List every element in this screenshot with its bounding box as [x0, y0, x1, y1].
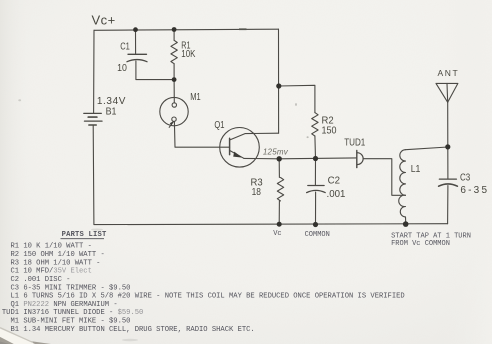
svg-text:L1: L1 [411, 163, 421, 174]
svg-text:PARTS LIST: PARTS LIST [62, 231, 107, 239]
svg-text:C2 .001 DISC -: C2 .001 DISC - [2, 276, 71, 284]
svg-text:B1: B1 [106, 106, 117, 118]
svg-text:R1 10 K 1/10 WATT -: R1 10 K 1/10 WATT - [2, 243, 92, 251]
svg-text:M1: M1 [190, 91, 200, 102]
svg-text:ANT: ANT [438, 68, 460, 78]
svg-text:10: 10 [117, 61, 127, 73]
svg-text:TUD1 IN3716 TUNNEL DIODE - $59: TUD1 IN3716 TUNNEL DIODE - $59.50 [2, 309, 143, 317]
svg-text:10K: 10K [181, 48, 195, 59]
svg-text:C1: C1 [120, 41, 130, 52]
svg-text:Vc+: Vc+ [92, 13, 116, 28]
svg-text:.001: .001 [327, 189, 346, 200]
svg-text:C2: C2 [328, 175, 340, 186]
svg-text:Q1 PN2222 NPN GERMANIUM -: Q1 PN2222 NPN GERMANIUM - [2, 301, 118, 309]
svg-text:M1 SUB-MINI FET MIKE - $9.50: M1 SUB-MINI FET MIKE - $9.50 [2, 318, 131, 326]
svg-text:Vc: Vc [273, 230, 281, 238]
svg-text:TUD1: TUD1 [344, 137, 365, 148]
svg-text:C1 10 MFD/35V Elect: C1 10 MFD/35V Elect [2, 268, 92, 276]
svg-text:125mv: 125mv [263, 148, 289, 157]
svg-text:C3 6-35 MINI TRIMMER - $9.50: C3 6-35 MINI TRIMMER - $9.50 [2, 284, 131, 292]
svg-text:FROM Vc COMMON: FROM Vc COMMON [391, 240, 450, 248]
svg-text:COMMON: COMMON [305, 231, 330, 239]
svg-text:150: 150 [322, 125, 337, 137]
svg-text:C3: C3 [460, 172, 470, 183]
svg-text:R3 18 OHM 1/10 WATT -: R3 18 OHM 1/10 WATT - [2, 259, 101, 267]
svg-text:18: 18 [252, 187, 261, 198]
svg-text:L1 6 TURNS 5/16 ID X 5/8 #20 W: L1 6 TURNS 5/16 ID X 5/8 #20 WIRE - NOTE… [2, 293, 405, 301]
svg-text:6-35: 6-35 [460, 185, 489, 196]
svg-text:R2 150 OHM 1/10 WATT -: R2 150 OHM 1/10 WATT - [2, 251, 105, 259]
svg-text:Q1: Q1 [214, 119, 224, 130]
svg-text:B1 1.34 MERCURY BUTTON CELL, D: B1 1.34 MERCURY BUTTON CELL, DRUG STORE,… [2, 326, 255, 334]
